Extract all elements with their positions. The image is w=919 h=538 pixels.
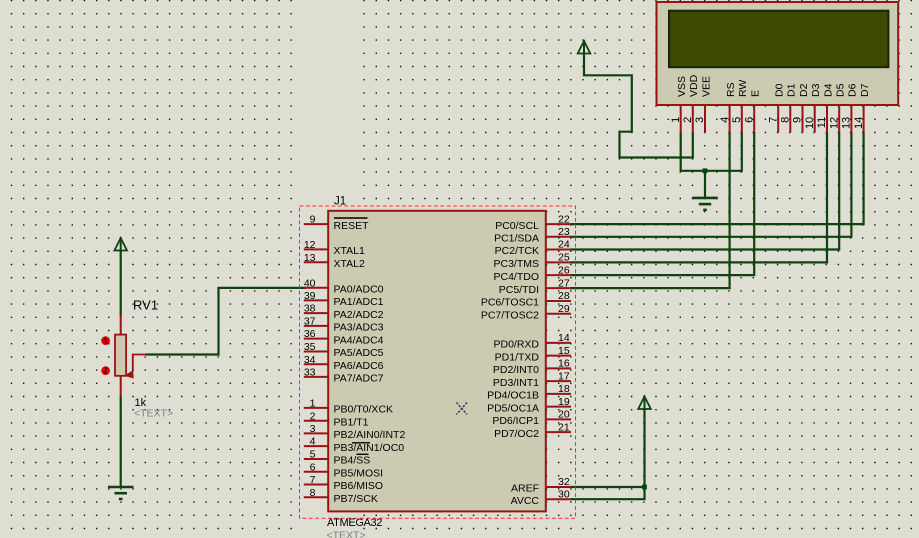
pin 8 PB7/SCK bbox=[304, 496, 329, 498]
power symbol (AVCC) bbox=[638, 397, 651, 410]
pin 23 PC1/SDA bbox=[545, 236, 571, 238]
LCD pin 12 D5 bbox=[838, 106, 840, 133]
svg-text:VDD: VDD bbox=[688, 74, 700, 97]
svg-text:11: 11 bbox=[816, 117, 828, 128]
svg-text:RW: RW bbox=[737, 80, 749, 97]
svg-text:12: 12 bbox=[828, 117, 840, 129]
wire AVCC riser bbox=[571, 408, 645, 500]
svg-text:PA6/ADC6: PA6/ADC6 bbox=[334, 360, 384, 372]
svg-text:D3: D3 bbox=[810, 83, 822, 97]
pin 12 XTAL1 bbox=[304, 248, 329, 250]
svg-text:PC1/SDA: PC1/SDA bbox=[494, 233, 539, 245]
svg-text:40: 40 bbox=[304, 277, 316, 289]
svg-text:PD4/OC1B: PD4/OC1B bbox=[487, 390, 539, 402]
svg-text:33: 33 bbox=[304, 367, 316, 379]
svg-text:PA5/ADC5: PA5/ADC5 bbox=[334, 347, 384, 359]
pin 33 PA7/ADC7 bbox=[304, 376, 329, 378]
wire PC5 to RS bbox=[571, 132, 730, 288]
svg-text:D1: D1 bbox=[786, 83, 798, 97]
svg-text:PD5/OC1A: PD5/OC1A bbox=[487, 402, 539, 414]
pin 29 PC7/TOSC2 bbox=[545, 313, 571, 315]
svg-text:22: 22 bbox=[558, 213, 570, 225]
svg-text:D2: D2 bbox=[798, 83, 810, 97]
resistor RV1 body bbox=[115, 335, 126, 376]
svg-text:RV1: RV1 bbox=[133, 298, 158, 313]
ground (below LCD) bbox=[692, 197, 718, 200]
wire RV1 wiper to PA0/ADC0 bbox=[146, 288, 306, 355]
LCD pin 4 RS bbox=[729, 106, 731, 133]
svg-text:PD0/RXD: PD0/RXD bbox=[493, 339, 539, 351]
svg-text:9: 9 bbox=[792, 117, 804, 123]
wire PC4 to E bbox=[571, 132, 755, 275]
svg-text:ATMEGA32: ATMEGA32 bbox=[327, 517, 382, 529]
svg-text:23: 23 bbox=[558, 226, 570, 238]
svg-text:39: 39 bbox=[304, 290, 316, 302]
svg-text:36: 36 bbox=[304, 328, 316, 340]
svg-text:PB5/MOSI: PB5/MOSI bbox=[334, 467, 384, 479]
svg-text:4: 4 bbox=[310, 436, 316, 448]
svg-text:26: 26 bbox=[558, 264, 570, 276]
svg-text:<TEXT>: <TEXT> bbox=[134, 408, 173, 420]
pin 3 PB2/AIN0/INT2 bbox=[304, 432, 329, 434]
LCD pin 2 VDD bbox=[692, 106, 694, 133]
pin 1 PB0/T0/XCK bbox=[304, 407, 329, 409]
svg-text:27: 27 bbox=[558, 277, 570, 289]
svg-text:PB3/AIN1/OC0: PB3/AIN1/OC0 bbox=[334, 442, 405, 454]
wire junction to ground bbox=[704, 171, 706, 198]
svg-text:PA4/ADC4: PA4/ADC4 bbox=[334, 334, 384, 346]
svg-text:RS: RS bbox=[725, 82, 737, 97]
svg-text:PA2/ADC2: PA2/ADC2 bbox=[334, 309, 384, 321]
svg-text:AREF: AREF bbox=[511, 483, 539, 495]
pin 25 PC3/TMS bbox=[545, 261, 571, 263]
svg-text:PA7/ADC7: PA7/ADC7 bbox=[334, 373, 384, 385]
svg-text:19: 19 bbox=[558, 396, 570, 408]
svg-text:PD3/INT1: PD3/INT1 bbox=[493, 377, 539, 389]
LCD pin 6 E bbox=[753, 106, 755, 133]
RV1 terminal marker top bbox=[101, 336, 110, 345]
wire RV1 top to power bbox=[120, 250, 122, 316]
pin 22 PC0/SCL bbox=[545, 223, 571, 225]
svg-text:34: 34 bbox=[304, 354, 316, 366]
svg-text:PC5/TDI: PC5/TDI bbox=[499, 284, 539, 296]
pin 9 RESET bbox=[304, 223, 329, 225]
LCD pin 9 D2 bbox=[802, 106, 804, 133]
svg-text:4: 4 bbox=[719, 117, 731, 123]
pin 17 PD3/INT1 bbox=[545, 380, 571, 382]
ground (below RV1) bbox=[108, 486, 134, 489]
svg-text:1: 1 bbox=[670, 117, 682, 123]
svg-text:PB0/T0/XCK: PB0/T0/XCK bbox=[334, 404, 394, 416]
svg-text:29: 29 bbox=[558, 303, 570, 315]
pin 39 PA1/ADC1 bbox=[304, 299, 329, 301]
svg-text:PB1/T1: PB1/T1 bbox=[334, 416, 369, 428]
svg-text:XTAL2: XTAL2 bbox=[334, 258, 365, 270]
pin 28 PC6/TOSC1 bbox=[545, 300, 571, 302]
wire RV1 bottom to ground bbox=[120, 396, 122, 488]
pin 16 PD2/INT0 bbox=[545, 367, 571, 369]
RV1 wiper arrow bbox=[133, 355, 146, 372]
svg-text:PB7/SCK: PB7/SCK bbox=[334, 493, 378, 505]
svg-text:25: 25 bbox=[558, 252, 570, 264]
LCD screen bbox=[669, 11, 888, 67]
svg-text:7: 7 bbox=[767, 117, 779, 123]
svg-text:35: 35 bbox=[304, 341, 316, 353]
power symbol (RV1 top) bbox=[114, 238, 127, 251]
wire LCD VSS to ground net bbox=[681, 132, 742, 171]
svg-text:17: 17 bbox=[558, 370, 570, 382]
svg-text:PC2/TCK: PC2/TCK bbox=[495, 245, 539, 257]
svg-text:14: 14 bbox=[853, 117, 865, 129]
svg-text:D4: D4 bbox=[822, 83, 834, 97]
pin 30 AVCC bbox=[545, 498, 571, 500]
pin 6 PB5/MOSI bbox=[304, 471, 329, 473]
pin 5 PB4/SS bbox=[304, 458, 329, 460]
LCD pin 5 RW bbox=[741, 106, 743, 133]
pin 19 PD5/OC1A bbox=[545, 406, 571, 408]
pin 26 PC4/TDO bbox=[545, 274, 571, 276]
svg-text:PD2/INT0: PD2/INT0 bbox=[493, 364, 539, 376]
svg-text:PC7/TOSC2: PC7/TOSC2 bbox=[481, 309, 539, 321]
svg-text:16: 16 bbox=[558, 358, 570, 370]
wire PC0 to D7 bbox=[571, 132, 864, 224]
svg-text:8: 8 bbox=[310, 487, 316, 499]
svg-text:28: 28 bbox=[558, 290, 570, 302]
svg-text:2: 2 bbox=[310, 410, 316, 422]
pin 13 XTAL2 bbox=[304, 261, 329, 263]
svg-text:6: 6 bbox=[743, 117, 755, 123]
svg-text:PD7/OC2: PD7/OC2 bbox=[494, 428, 539, 440]
svg-text:30: 30 bbox=[558, 488, 570, 500]
LCD pin 13 D6 bbox=[850, 106, 852, 133]
pin 20 PD6/ICP1 bbox=[545, 418, 571, 420]
pin 40 PA0/ADC0 bbox=[304, 287, 329, 289]
pin 4 PB3/AIN1/OC0 bbox=[304, 445, 329, 447]
svg-text:<TEXT>: <TEXT> bbox=[327, 530, 366, 538]
pin 27 PC5/TDI bbox=[545, 287, 571, 289]
pin 14 PD0/RXD bbox=[545, 342, 571, 344]
svg-text:PC6/TOSC1: PC6/TOSC1 bbox=[481, 297, 539, 309]
svg-text:12: 12 bbox=[304, 239, 316, 251]
svg-text:PD6/ICP1: PD6/ICP1 bbox=[492, 415, 539, 427]
svg-text:14: 14 bbox=[558, 332, 570, 344]
svg-text:PA1/ADC1: PA1/ADC1 bbox=[334, 296, 384, 308]
LCD pin 8 D1 bbox=[789, 106, 791, 133]
svg-text:VSS: VSS bbox=[676, 76, 688, 97]
svg-text:32: 32 bbox=[558, 476, 570, 488]
resistor RV1 stub top bbox=[120, 315, 122, 335]
svg-text:3: 3 bbox=[694, 117, 706, 123]
pin 32 AREF bbox=[545, 486, 571, 488]
wire AREF to junction bbox=[571, 486, 645, 488]
pin 35 PA5/ADC5 bbox=[304, 351, 329, 353]
wire PC3 to D4 bbox=[571, 132, 828, 262]
svg-text:E: E bbox=[750, 90, 762, 97]
svg-text:13: 13 bbox=[304, 252, 316, 264]
junction dot (AREF/AVCC) bbox=[642, 485, 647, 490]
pin 38 PA2/ADC2 bbox=[304, 312, 329, 314]
RESET overline bbox=[334, 217, 368, 219]
pin 34 PA6/ADC6 bbox=[304, 363, 329, 365]
svg-text:38: 38 bbox=[304, 303, 316, 315]
LCD pin 1 VSS bbox=[680, 106, 682, 133]
svg-text:J1: J1 bbox=[334, 196, 346, 208]
svg-text:PB6/MISO: PB6/MISO bbox=[334, 480, 384, 492]
svg-text:20: 20 bbox=[558, 409, 570, 421]
svg-text:37: 37 bbox=[304, 316, 316, 328]
pin 7 PB6/MISO bbox=[304, 484, 329, 486]
RV1 terminal marker bottom bbox=[101, 366, 110, 375]
svg-text:6: 6 bbox=[310, 461, 316, 473]
svg-text:5: 5 bbox=[731, 117, 743, 123]
svg-text:D0: D0 bbox=[774, 83, 786, 97]
origin marker X bbox=[457, 403, 468, 415]
pin 2 PB1/T1 bbox=[304, 420, 329, 422]
pin 24 PC2/TCK bbox=[545, 249, 571, 251]
svg-text:D6: D6 bbox=[847, 83, 859, 97]
pin 21 PD7/OC2 bbox=[545, 431, 571, 433]
svg-text:PB2/AIN0/INT2: PB2/AIN0/INT2 bbox=[334, 429, 406, 441]
LCD pin 3 VEE bbox=[704, 106, 706, 133]
svg-text:PD1/TXD: PD1/TXD bbox=[495, 351, 540, 363]
svg-text:15: 15 bbox=[558, 345, 570, 357]
pin 15 PD1/TXD bbox=[545, 355, 571, 357]
junction dot (VSS/RW net) bbox=[703, 168, 708, 173]
svg-text:8: 8 bbox=[780, 117, 792, 123]
svg-text:PA3/ADC3: PA3/ADC3 bbox=[334, 322, 384, 334]
LCD pin 7 D0 bbox=[777, 106, 779, 133]
svg-text:VEE: VEE bbox=[700, 76, 712, 97]
svg-text:D5: D5 bbox=[835, 83, 847, 97]
svg-text:PC4/TDO: PC4/TDO bbox=[493, 271, 539, 283]
svg-text:XTAL1: XTAL1 bbox=[334, 245, 365, 257]
chip J1 ATMEGA32 body bbox=[328, 211, 546, 512]
pin 36 PA4/ADC4 bbox=[304, 338, 329, 340]
selection box (dashed) around U1 bbox=[300, 206, 576, 518]
svg-text:PC3/TMS: PC3/TMS bbox=[493, 258, 539, 270]
svg-text:7: 7 bbox=[310, 474, 316, 486]
LCD pin 10 D3 bbox=[814, 106, 816, 133]
wire PC1 to D6 bbox=[571, 132, 852, 237]
svg-text:10: 10 bbox=[804, 117, 816, 129]
svg-text:18: 18 bbox=[558, 383, 570, 395]
wire PC2 to D5 bbox=[571, 132, 840, 250]
svg-text:24: 24 bbox=[558, 239, 570, 251]
resistor RV1 stub bottom bbox=[120, 376, 122, 397]
svg-text:3: 3 bbox=[310, 423, 316, 435]
wire power to LCD VDD bbox=[584, 54, 693, 158]
svg-text:1: 1 bbox=[310, 398, 316, 410]
power symbol (LCD VDD) bbox=[578, 41, 591, 54]
svg-text:AVCC: AVCC bbox=[511, 495, 540, 507]
SS overline bbox=[357, 453, 369, 455]
svg-text:21: 21 bbox=[558, 421, 570, 433]
LCD pin 14 D7 bbox=[863, 106, 865, 133]
svg-text:13: 13 bbox=[841, 117, 853, 129]
svg-text:PC0/SCL: PC0/SCL bbox=[495, 220, 539, 232]
svg-text:5: 5 bbox=[310, 449, 316, 461]
svg-text:2: 2 bbox=[682, 117, 694, 123]
svg-text:RESET: RESET bbox=[334, 220, 370, 232]
svg-text:9: 9 bbox=[310, 214, 316, 226]
svg-text:PB4/SS: PB4/SS bbox=[334, 455, 371, 467]
svg-text:D7: D7 bbox=[859, 83, 871, 97]
pin 37 PA3/ADC3 bbox=[304, 325, 329, 327]
LCD body LM016L bbox=[657, 2, 899, 105]
AIN1 overline bbox=[352, 442, 370, 444]
svg-text:PA0/ADC0: PA0/ADC0 bbox=[334, 283, 384, 295]
pin 18 PD4/OC1B bbox=[545, 393, 571, 395]
LCD pin 11 D4 bbox=[826, 106, 828, 133]
